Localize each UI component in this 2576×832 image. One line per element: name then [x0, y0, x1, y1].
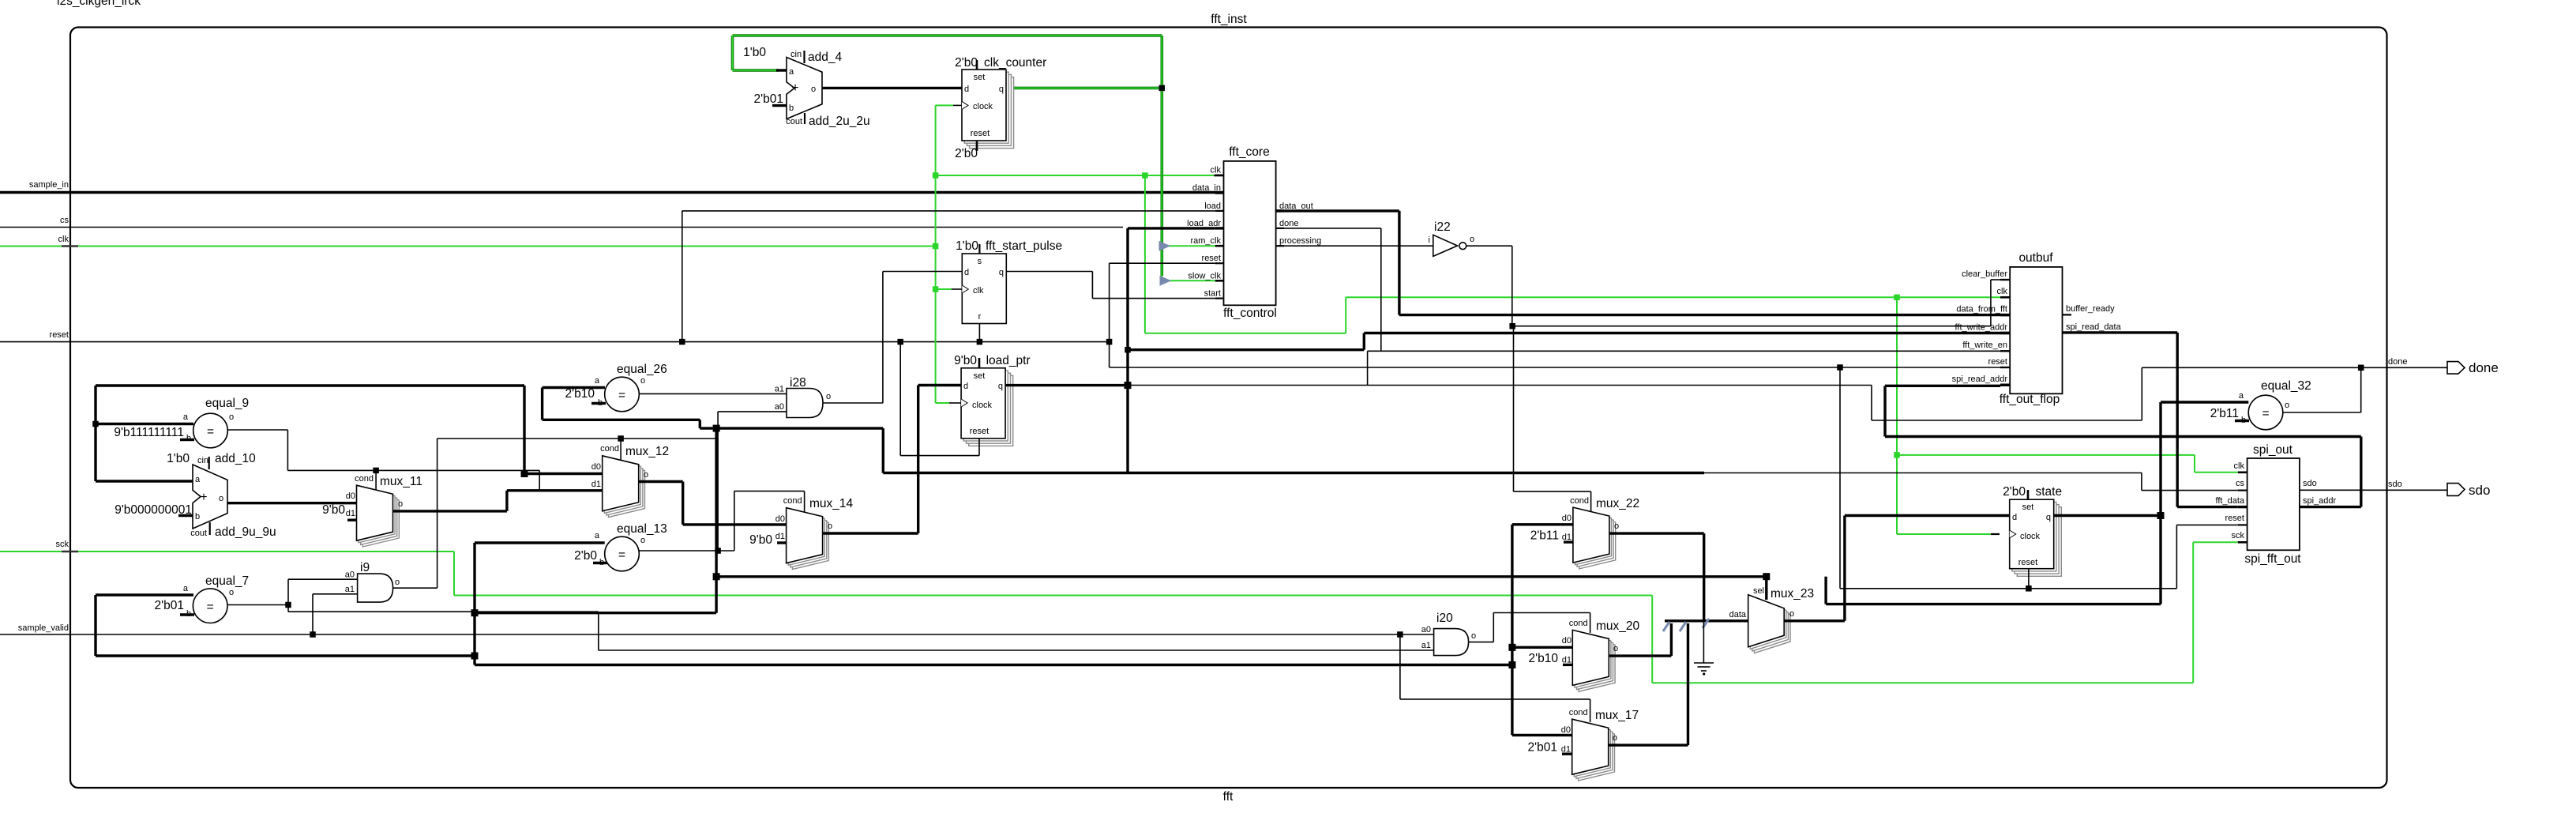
svg-text:outbuf: outbuf — [2018, 251, 2053, 265]
svg-text:a0: a0 — [775, 402, 784, 412]
svg-text:o: o — [826, 392, 831, 401]
node junction 1772.9,803 — [1397, 631, 1403, 638]
svg-text:fft_control: fft_control — [1223, 307, 1277, 320]
wire slow_clk bus to add_4 a — [733, 69, 779, 72]
svg-text:data_in: data_in — [1192, 183, 1221, 193]
svg-text:9'b0: 9'b0 — [749, 533, 772, 547]
equal equal_26 — [543, 386, 605, 389]
wire mux_17 cond chain — [1399, 634, 1401, 699]
wire to spi_out cs — [1704, 472, 2142, 474]
wire clk to load_ptr clock — [936, 402, 949, 404]
svg-text:sck: sck — [2232, 531, 2245, 540]
wire i20 o to mux_20 cond — [1469, 642, 1493, 643]
wire state y764.6 — [1826, 603, 2161, 605]
equal equal_32 — [2161, 401, 2248, 403]
svg-text:spi_read_addr: spi_read_addr — [1952, 375, 2008, 384]
node load_adr junction 1428,487.6 — [1125, 382, 1132, 389]
svg-text:cond: cond — [1569, 708, 1588, 717]
svg-text:set: set — [974, 73, 986, 82]
svg-text:mux_12: mux_12 — [625, 445, 669, 458]
wire state reset stub — [2028, 569, 2030, 589]
wire count net x664 — [523, 386, 525, 474]
node junction 1914.9,841.5 — [1508, 661, 1515, 668]
wire mux_11 cond drop — [375, 470, 377, 491]
wire processing to i22 — [1276, 245, 1433, 247]
node reset junction 2568.9,744.8 — [2026, 585, 2032, 592]
svg-text:sdo: sdo — [2469, 483, 2490, 498]
wire add_4 o to clk_counter d — [822, 87, 962, 89]
wire load_adr bus from load_ptr q — [1005, 384, 1128, 386]
svg-text:o: o — [811, 85, 816, 94]
svg-text:done: done — [2469, 360, 2499, 375]
wire sck vertical x575 — [453, 552, 455, 596]
wire add_10 o to mux_11 d0 — [227, 502, 357, 504]
node clk junction 2402,575.9 — [1894, 452, 1900, 458]
svg-text:d: d — [964, 85, 969, 94]
wire clk y421.8 — [1145, 333, 1346, 334]
svg-text:fft_out_flop: fft_out_flop — [2000, 393, 2060, 406]
register fft_start_pulse — [962, 254, 1006, 324]
svg-text:d0: d0 — [346, 491, 355, 501]
wire reset to spi_out reset — [2176, 525, 2177, 588]
node state junction 2236.8,729.7 — [1763, 573, 1770, 580]
wire fft_start_pulse d from i28 — [883, 271, 962, 273]
wire equal_9 b const stub — [180, 439, 194, 441]
svg-text:add_10: add_10 — [215, 452, 256, 465]
svg-text:a: a — [595, 376, 600, 386]
wire clk vertical x1449.9 — [1144, 175, 1146, 333]
wire state dist vertical x1914.9 — [1511, 525, 1513, 736]
svg-text:clear_buffer: clear_buffer — [1962, 269, 2007, 279]
wire clk_counter q bus — [1009, 87, 1162, 90]
equal equal_9 — [96, 423, 193, 425]
arrowhead ram_clk — [1159, 242, 1170, 251]
wire mux_22 o to data trunk — [1609, 532, 1704, 534]
svg-text:mux_20: mux_20 — [1596, 619, 1640, 633]
mux mux_22 — [1579, 514, 1616, 569]
svg-text:2'b10: 2'b10 — [1529, 652, 1559, 665]
svg-text:2'b10: 2'b10 — [565, 387, 595, 401]
svg-text:o: o — [640, 376, 645, 386]
svg-text:sck: sck — [56, 540, 69, 549]
svg-text:2'b01: 2'b01 — [754, 92, 783, 106]
svg-text:o: o — [1613, 644, 1618, 653]
svg-text:i20: i20 — [1436, 612, 1453, 625]
wire mux_17 d1 const stub — [1562, 753, 1572, 755]
svg-text:=: = — [207, 600, 214, 614]
node junction 365,765.5 — [285, 602, 291, 608]
svg-text:done: done — [1279, 219, 1298, 228]
wire load count y598.7 — [883, 472, 1704, 474]
wire sdo out — [2300, 489, 2447, 491]
register state — [2017, 507, 2061, 577]
svg-text:sdo: sdo — [2303, 479, 2317, 488]
wire sck y753.5 — [454, 595, 1652, 597]
mux mux_14 — [792, 514, 828, 570]
node clk junction 1184.6,366 — [933, 286, 939, 292]
svg-text:+: + — [791, 81, 798, 95]
node load_adr junction 1428,442.7 — [1125, 347, 1131, 353]
svg-text:clk: clk — [2234, 461, 2245, 471]
wire sck vertical x2092.2 — [1651, 596, 1653, 683]
node reset junction 1240.4,432.6 — [977, 339, 983, 345]
wire state set const stub — [2027, 490, 2030, 499]
svg-text:=: = — [2262, 407, 2269, 420]
svg-text:a: a — [789, 67, 794, 77]
wire fft_write_addr bus — [1128, 348, 1364, 351]
wire fft_start_pulse s const stub — [978, 244, 980, 254]
svg-text:clock: clock — [2020, 532, 2041, 541]
svg-text:b: b — [195, 512, 200, 521]
svg-text:a: a — [595, 531, 600, 540]
svg-text:ram_clk: ram_clk — [1190, 236, 1221, 246]
svg-text:fft: fft — [1223, 790, 1234, 804]
svg-text:clk_counter: clk_counter — [984, 56, 1046, 70]
svg-text:2'b0: 2'b0 — [955, 56, 978, 70]
node reset junction 1140.2,432.6 — [897, 339, 903, 345]
svg-text:i2s_clkgen_lrck: i2s_clkgen_lrck — [57, 0, 141, 8]
svg-text:cin: cin — [790, 50, 802, 59]
wire clk_counter set const stub — [976, 60, 978, 70]
svg-text:reset: reset — [971, 129, 989, 138]
svg-text:spi_out: spi_out — [2253, 443, 2293, 457]
svg-text:i9: i9 — [360, 561, 370, 574]
svg-text:=: = — [618, 548, 625, 562]
node cond junction 786.1,555 — [618, 435, 624, 442]
svg-text:equal_26: equal_26 — [617, 363, 667, 376]
svg-text:i: i — [1429, 235, 1430, 245]
clock triangle load_ptr — [961, 399, 967, 407]
wire equal_13 o to mux_14 cond — [734, 491, 735, 551]
svg-text:sdo: sdo — [2388, 480, 2402, 489]
wire load_ptr set const stub — [978, 358, 981, 368]
module spi_out / spi_fft_out — [2247, 458, 2300, 550]
wire i22 out — [1466, 245, 1512, 247]
wire clk y575.9 — [1897, 454, 2195, 456]
node state junction 2736,652.5 — [2157, 512, 2165, 519]
wire slow_clk into fft_core — [1161, 276, 1162, 280]
svg-text:o: o — [640, 536, 645, 545]
svg-text:2'b0: 2'b0 — [955, 147, 978, 160]
svg-text:reset: reset — [50, 330, 69, 340]
wire equal_7 b const stub — [180, 613, 194, 616]
svg-text:clock: clock — [972, 401, 993, 410]
svg-text:a1: a1 — [345, 585, 355, 594]
svg-text:s: s — [978, 257, 982, 266]
svg-text:a1: a1 — [1421, 641, 1431, 650]
inverter i22 — [1433, 235, 1458, 256]
svg-text:o: o — [1614, 521, 1619, 531]
wire equal_13 o — [639, 550, 734, 552]
mux mux_11 — [362, 491, 399, 547]
wire add_4 cout stub — [804, 113, 805, 124]
svg-text:d0: d0 — [591, 462, 601, 472]
svg-text:fft_write_en: fft_write_en — [1962, 341, 2007, 350]
svg-text:a0: a0 — [345, 570, 355, 580]
node cond junction 476.1,595.4 — [373, 468, 379, 474]
wire spi_read_addr bus — [1885, 385, 2000, 387]
pin stubs fft_core left — [1215, 175, 1224, 176]
svg-text:data_out: data_out — [1279, 201, 1313, 211]
svg-text:cout: cout — [786, 117, 802, 126]
mux mux_17 — [1579, 725, 1615, 781]
svg-text:+: + — [200, 491, 207, 504]
wire equal_7 o — [227, 604, 288, 606]
svg-text:equal_9: equal_9 — [205, 397, 249, 410]
svg-text:1'b0: 1'b0 — [167, 452, 190, 465]
mux mux_12 — [609, 462, 645, 518]
svg-text:mux_11: mux_11 — [380, 475, 422, 488]
svg-text:o: o — [1613, 733, 1617, 743]
wire slow_clk bus y45 — [733, 34, 1162, 37]
wire reset branch y465 to outbuf — [1110, 367, 2000, 368]
svg-text:mux_22: mux_22 — [1596, 497, 1639, 510]
svg-text:sample_valid: sample_valid — [18, 623, 69, 633]
wire state vertical x2736 — [2159, 402, 2161, 604]
svg-text:state: state — [2036, 485, 2063, 499]
mux mux_20 — [1579, 636, 1615, 691]
module fft_core / fft_control — [1224, 161, 1276, 305]
wire equal_32 b const stub — [2235, 420, 2249, 422]
svg-text:reset: reset — [2018, 558, 2037, 567]
svg-text:cond: cond — [1569, 619, 1588, 628]
svg-text:add_2u_2u: add_2u_2u — [809, 115, 870, 128]
wire cs_sync x121 — [94, 595, 96, 656]
wire equal_9 o to mux cond — [227, 429, 287, 431]
svg-text:a: a — [195, 475, 201, 484]
svg-text:equal_13: equal_13 — [617, 522, 667, 536]
svg-text:reset: reset — [2225, 514, 2244, 523]
svg-text:d: d — [964, 268, 969, 277]
svg-text:add_9u_9u: add_9u_9u — [215, 525, 276, 539]
wire mux_12 cond drop — [620, 439, 621, 462]
svg-text:d: d — [2012, 513, 2017, 522]
wire sck y864.2 — [1652, 682, 2193, 683]
node junction 396,803 — [310, 631, 316, 638]
svg-text:cs: cs — [60, 216, 69, 225]
node slow_clk junction 1471.3,111.4 — [1159, 85, 1166, 92]
svg-text:load_ptr: load_ptr — [986, 354, 1031, 367]
wire mux_12 o to mux_14 d0 — [639, 480, 683, 483]
svg-text:o: o — [1789, 609, 1794, 619]
svg-text:set: set — [2022, 503, 2034, 512]
wire clk y376.3 to outbuf clk — [1346, 296, 2000, 298]
svg-text:d1: d1 — [1562, 533, 1572, 542]
wire add_10 b const stub — [178, 514, 193, 517]
svg-text:load: load — [1204, 201, 1221, 211]
wire clk to fft_start_pulse clk stub — [936, 288, 952, 290]
wire equal_32 o to done — [2283, 412, 2361, 413]
wire done/write_en chain — [1368, 350, 2000, 352]
wire mux_22 cond from i22 — [1513, 326, 1515, 491]
and gate i20 — [1434, 629, 1469, 656]
wire mux_20 d1 const stub — [1563, 664, 1572, 666]
node junction 121,536.5 — [92, 421, 99, 427]
svg-text:cout: cout — [190, 529, 207, 538]
node junction 1914.9,819.3 — [1508, 644, 1515, 651]
svg-text:q: q — [999, 268, 1004, 277]
wire ram_clk into fft_core — [1169, 245, 1215, 247]
svg-text:reset: reset — [970, 427, 989, 436]
svg-text:cond: cond — [600, 444, 619, 454]
mux mux_23 — [1755, 601, 1791, 653]
wire mux_11 o to mux_12 d1 — [393, 510, 507, 512]
wire clk y676 to state clock — [1897, 533, 1991, 535]
wire reset y744.8 — [1840, 588, 2176, 589]
wire equal_13 b const stub — [593, 562, 607, 564]
svg-text:reset: reset — [1988, 357, 2007, 367]
svg-text:o: o — [229, 412, 234, 422]
wire cs_sync y841.5 — [475, 664, 1512, 666]
wire equal_13 a — [475, 541, 605, 544]
pin stubs outbuf — [2000, 279, 2010, 280]
svg-text:o: o — [229, 588, 234, 597]
svg-text:d1: d1 — [346, 509, 355, 518]
svg-text:a: a — [183, 584, 189, 593]
svg-text:equal_7: equal_7 — [205, 574, 249, 588]
wire clk to clk_counter clock — [936, 104, 953, 106]
wire done from fft_core — [1276, 228, 1381, 229]
wire done to port — [2142, 367, 2447, 368]
svg-text:done: done — [2388, 357, 2407, 367]
pin stubs fft_core right — [1276, 209, 1284, 212]
svg-text:2'b01: 2'b01 — [155, 599, 184, 612]
svg-text:processing: processing — [1279, 236, 1321, 246]
svg-text:q: q — [2046, 513, 2051, 522]
svg-text:2'b0: 2'b0 — [574, 549, 597, 563]
svg-text:cs: cs — [2236, 479, 2245, 488]
svg-text:b: b — [789, 104, 794, 113]
module outbuf / fft_out_flop — [2010, 267, 2062, 393]
wire mux_23 o — [1784, 619, 1845, 622]
wire sck to spi_out sck — [2193, 541, 2238, 543]
svg-text:q: q — [999, 85, 1004, 94]
wire i9 o to mux_12 cond — [393, 587, 437, 589]
svg-text:start: start — [1204, 289, 1221, 299]
wire equal_26 a chain — [541, 388, 543, 420]
svg-text:cond: cond — [1570, 496, 1589, 506]
wire clk branch y222 to fft_core clk — [936, 175, 1215, 176]
svg-text:i28: i28 — [790, 376, 806, 390]
wire count net y488 — [96, 384, 524, 386]
clock triangle state — [2010, 530, 2016, 538]
svg-text:1'b0: 1'b0 — [956, 239, 978, 253]
svg-text:a: a — [183, 412, 189, 422]
wire count net x121 — [94, 386, 96, 481]
wire mux_14 d1 const stub — [777, 541, 787, 544]
svg-text:a: a — [2239, 391, 2244, 401]
wire clk to spi_out clk — [2195, 472, 2238, 473]
svg-text:q: q — [998, 382, 1003, 391]
svg-text:o: o — [219, 494, 223, 503]
svg-text:mux_17: mux_17 — [1595, 709, 1639, 722]
wire equal_26 b const stub — [591, 402, 606, 405]
svg-text:fft_start_pulse: fft_start_pulse — [986, 239, 1062, 253]
svg-text:set: set — [974, 371, 986, 381]
svg-text:9'b0: 9'b0 — [322, 503, 345, 517]
wire state q — [2054, 514, 2161, 517]
svg-text:d1: d1 — [591, 480, 601, 489]
wire clk net vertical x1184.6 — [935, 105, 937, 403]
svg-text:2'b11: 2'b11 — [2210, 407, 2239, 420]
bus ripper marks — [1663, 622, 1669, 631]
svg-text:data_from_fft: data_from_fft — [1956, 305, 2007, 314]
adder add_4 — [787, 58, 822, 119]
svg-text:sel: sel — [1753, 586, 1764, 596]
svg-text:mux_14: mux_14 — [809, 497, 854, 510]
node reset junction 863.8,432.6 — [679, 339, 685, 345]
and gate i9 — [358, 574, 393, 602]
wire state d from mux_23 — [1845, 514, 2010, 517]
wire mux_20 d0 — [1512, 646, 1572, 649]
svg-text:reset: reset — [1202, 254, 1221, 263]
svg-text:a1: a1 — [775, 385, 784, 394]
wire state net y729.8 — [716, 575, 1767, 578]
svg-text:clk: clk — [973, 286, 984, 296]
wire mux_23 sel drop — [1765, 577, 1767, 600]
svg-text:o: o — [2285, 401, 2289, 410]
svg-text:1'b0: 1'b0 — [743, 46, 766, 59]
svg-text:2'b11: 2'b11 — [1530, 529, 1559, 543]
svg-text:o: o — [1470, 235, 1474, 244]
wire add_4 b const stub — [772, 104, 787, 107]
svg-text:equal_32: equal_32 — [2261, 379, 2311, 393]
svg-text:9'b0: 9'b0 — [954, 354, 977, 367]
svg-text:9'b111111111: 9'b111111111 — [114, 426, 184, 439]
wire add_10 cout stub — [209, 522, 211, 535]
node junction 664,599.5 — [521, 470, 528, 477]
svg-text:mux_23: mux_23 — [1771, 587, 1814, 600]
node clk junction 1449.9,222 — [1142, 172, 1148, 179]
svg-text:o: o — [644, 470, 648, 480]
wire mux_22 d0 — [1512, 523, 1573, 525]
wire clk vertical x2779 — [2194, 455, 2195, 472]
wire i9 a1 from sample_valid — [312, 594, 314, 634]
wire mux_14 o to load_ptr d — [823, 532, 918, 534]
register clk_counter — [970, 77, 1014, 149]
svg-text:spi_addr: spi_addr — [2303, 496, 2337, 506]
svg-text:add_4: add_4 — [808, 51, 842, 64]
svg-text:=: = — [207, 425, 214, 439]
svg-text:clk: clk — [1997, 287, 2008, 296]
svg-text:spi_fft_out: spi_fft_out — [2244, 552, 2301, 566]
and gate i28 — [787, 389, 823, 418]
svg-text:2'b0: 2'b0 — [2003, 485, 2026, 499]
wire add_10 a — [96, 480, 193, 482]
wire spi_addr riser — [2360, 437, 2362, 507]
svg-text:=: = — [618, 389, 625, 402]
svg-text:data: data — [1729, 610, 1747, 619]
svg-text:2'b01: 2'b01 — [1528, 741, 1557, 755]
svg-text:fft_core: fft_core — [1229, 145, 1269, 159]
wire clk vertical x1704.2 — [1345, 297, 1346, 333]
svg-text:buffer_ready: buffer_ready — [2066, 304, 2115, 314]
node done junction 2989.7,465.3 — [2358, 365, 2364, 371]
wire equal_26 o to i28 a1 — [639, 393, 787, 394]
wire reset to fft_control — [1109, 263, 1110, 367]
wire state x2312.1 — [1824, 577, 1827, 604]
svg-text:fft_write_addr: fft_write_addr — [1955, 323, 2008, 333]
svg-text:cond: cond — [783, 496, 802, 506]
svg-text:cond: cond — [355, 474, 374, 484]
wire fft_start_pulse q to start — [1006, 271, 1092, 273]
wire mux_11 d1 const stub — [347, 519, 357, 521]
clock triangle fft_start_pulse — [962, 285, 968, 293]
svg-text:spi_read_data: spi_read_data — [2066, 322, 2122, 332]
svg-text:r: r — [978, 312, 982, 322]
svg-text:o: o — [828, 521, 832, 531]
wire clk vertical x2402 — [1896, 297, 1898, 534]
